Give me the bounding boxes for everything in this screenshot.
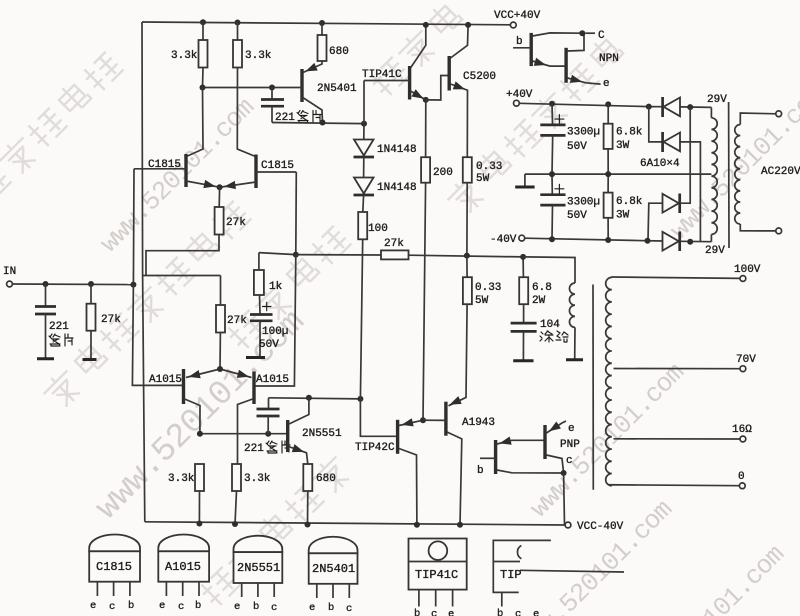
- svg-text:680: 680: [316, 473, 336, 485]
- resistor 27k (lower tail): [220, 276, 222, 306]
- svg-text:221: 221: [244, 443, 264, 455]
- svg-text:16Ω: 16Ω: [732, 424, 752, 436]
- svg-text:c: c: [346, 603, 352, 615]
- svg-text:b: b: [253, 601, 259, 613]
- svg-text:e: e: [448, 609, 454, 616]
- ground (output primary): [566, 358, 583, 361]
- svg-text:www.520101.com: www.520101.com: [664, 80, 800, 246]
- ground (input 27k): [83, 358, 97, 361]
- junction (680 on rail): [305, 522, 311, 528]
- package outline A1015: [158, 535, 209, 552]
- svg-text:b: b: [497, 608, 503, 616]
- wire: bottom rail VCC-40V: [145, 522, 565, 525]
- wire: bias chain down to 2N5551 collector node: [360, 239, 362, 399]
- wire: 27k feedback to output node: [409, 255, 524, 257]
- junction (inset PNP collector c): [561, 470, 567, 476]
- svg-text:TIP41C: TIP41C: [415, 568, 458, 582]
- junction (2N5401 collector): [320, 120, 326, 126]
- junction (TIP41C base / diode chain top): [361, 121, 367, 127]
- svg-text:104: 104: [540, 319, 560, 331]
- resistor 100 (bias chain): [362, 195, 365, 212]
- inset PNP darlington: driver transistor: [494, 440, 497, 474]
- svg-text:2N5551: 2N5551: [237, 561, 280, 575]
- resistor 6.8k 3W (lower bleeder): [607, 174, 609, 193]
- wire: C1815-R base down to feedback node: [295, 172, 298, 255]
- junction (3300u-2 bottom): [549, 236, 555, 242]
- package TIP41C legs: [419, 590, 453, 607]
- transistor C5200 (upper output): [448, 56, 451, 91]
- resistor 27k (upper tail): [218, 187, 220, 207]
- svg-text:e: e: [90, 600, 96, 612]
- diode 6A10 D3: [648, 203, 663, 241]
- junction (221 cap bottom): [265, 431, 271, 437]
- svg-text:c: c: [178, 601, 184, 613]
- junction (3.3k-L on top rail): [200, 19, 206, 25]
- terminal 16ohm: [740, 436, 746, 442]
- wire: psu center tap rail: [525, 173, 712, 175]
- wire: C1815-L base down to input node: [132, 169, 135, 285]
- watermark band kanji top-left: [0, 48, 126, 231]
- svg-text:+40V: +40V: [506, 89, 533, 101]
- output transformer secondary winding: [611, 276, 613, 277]
- wire: 200 down to TIP42C emitter node: [423, 183, 426, 421]
- wire: 2N5401 base node: [203, 87, 273, 89]
- svg-text:TIP42C: TIP42C: [355, 442, 395, 454]
- svg-text:100V: 100V: [734, 264, 761, 276]
- svg-text:c: c: [431, 609, 437, 616]
- svg-text:27k: 27k: [384, 238, 404, 250]
- capacitor 221 ceramic (2N5401 base-emitter): [271, 88, 273, 99]
- wire: TIP41C base vertical: [363, 81, 365, 124]
- svg-text:C1815: C1815: [96, 560, 132, 574]
- svg-text:3300µ: 3300µ: [567, 197, 600, 209]
- svg-text:1N4148: 1N4148: [377, 144, 417, 156]
- ground (psu center tap): [524, 174, 526, 186]
- transistor 2N5401: [300, 69, 303, 102]
- junction (D1/D2 anode-cathode node): [646, 104, 652, 110]
- svg-text:A1943: A1943: [462, 417, 495, 429]
- junction (2N5551 collector): [306, 395, 312, 401]
- svg-text:6.8k: 6.8k: [616, 127, 643, 139]
- svg-text:c: c: [271, 602, 277, 614]
- watermark band kanji bottom-left: [38, 197, 254, 413]
- wire: feedback node to 27k resistor: [296, 254, 381, 256]
- svg-text:680: 680: [329, 46, 349, 58]
- junction (inset NPN collector C): [579, 30, 585, 36]
- ground (zobel): [513, 359, 533, 362]
- transistor A1015 (diff pair left): [182, 369, 185, 404]
- terminal AC220V top: [776, 111, 782, 117]
- junction (bias chain bottom / TIP42C base feed): [357, 396, 363, 402]
- wire: A1015-L collector to 2N5551 base: [200, 433, 288, 435]
- junction (top rail C5200 collector): [465, 22, 471, 28]
- svg-text:www.520101.com: www.520101.com: [94, 93, 260, 259]
- psu transformer primary winding: [740, 113, 776, 125]
- ground (input cap): [37, 357, 54, 360]
- resistor 6.8 2W (zobel): [522, 257, 524, 277]
- ground (100u cap): [246, 356, 265, 359]
- svg-text:29V: 29V: [705, 245, 725, 257]
- inset NPN darlington: output transistor: [564, 48, 567, 83]
- terminal VCC-40V: [565, 522, 571, 528]
- wire: inset PNP collector to rail: [563, 473, 566, 525]
- junction (3.3k-R on top rail): [235, 20, 241, 26]
- capacitor 104 polyester (zobel): [523, 304, 525, 322]
- svg-text:VCC-40V: VCC-40V: [577, 521, 624, 533]
- svg-text:2N5401: 2N5401: [312, 562, 355, 576]
- resistor 3.3k (A1015-R load): [232, 464, 241, 491]
- diode 6A10 D1: [661, 97, 664, 117]
- capacitor 100u 50V electrolytic: [259, 295, 262, 314]
- wire: tap 100V: [612, 277, 741, 278]
- svg-text:1N4148: 1N4148: [377, 182, 417, 194]
- wire: tap 70V: [614, 368, 741, 370]
- junction (input 27k): [88, 281, 94, 287]
- junction (caps midpoint): [549, 171, 555, 177]
- svg-text:70V: 70V: [736, 354, 756, 366]
- wire: 0.33 lower to A1943 emitter: [449, 304, 468, 406]
- junction (input to bases): [130, 282, 136, 288]
- svg-text:TIP: TIP: [500, 568, 522, 582]
- svg-text:e: e: [159, 600, 165, 612]
- terminal +40V: [514, 100, 520, 106]
- watermark band kanji bottom-center: [195, 451, 355, 611]
- resistor 680 (2N5401 load): [321, 23, 323, 36]
- junction (3.3k-R on rail): [232, 521, 238, 527]
- svg-text:C1815: C1815: [148, 159, 181, 171]
- svg-text:AC220V: AC220V: [761, 166, 800, 178]
- svg-text:200: 200: [433, 167, 453, 179]
- junction (3.3k / C1815-L collector / 2N5401 base): [200, 85, 206, 91]
- wire: left rail to lower tail 27k: [143, 275, 221, 277]
- junction (3.3k-L on rail): [196, 521, 202, 527]
- svg-text:3.3k: 3.3k: [168, 473, 195, 485]
- svg-text:27k: 27k: [226, 217, 246, 229]
- diode 6A10 D4: [663, 232, 679, 251]
- svg-text:NPN: NPN: [599, 53, 619, 65]
- package outline TIP41C: [409, 539, 467, 590]
- resistor 6.8k 3W (upper bleeder): [607, 104, 609, 123]
- diode 1N4148 (bias, lower): [363, 157, 365, 178]
- capacitor 3300u 50V (upper): [551, 104, 554, 124]
- svg-text:3.3k: 3.3k: [244, 473, 271, 485]
- wire: psu +40V rail: [519, 103, 662, 106]
- junction (TIP42C emitter / A1943 base): [420, 417, 426, 423]
- capacitor 221 ceramic (input): [45, 284, 47, 306]
- output inductor (transformer primary): [569, 283, 575, 327]
- junction (6.8k-1 top): [605, 101, 611, 107]
- svg-text:b: b: [328, 602, 334, 614]
- svg-text:100: 100: [368, 223, 388, 235]
- diode 1N4148 (bias, upper): [363, 124, 365, 140]
- svg-text:c: c: [566, 455, 573, 467]
- svg-text:6.8k: 6.8k: [616, 196, 643, 208]
- svg-text:2N5401: 2N5401: [317, 83, 357, 95]
- terminal AC220V bottom: [776, 228, 782, 234]
- junction (output node at 0.33 upper): [464, 253, 470, 259]
- wire: output line to matching transformer: [523, 257, 575, 283]
- resistor 200 (driver emitters): [425, 100, 427, 157]
- junction (D1 right / winding top): [687, 104, 693, 110]
- svg-text:3.3k: 3.3k: [245, 50, 272, 62]
- wire: TIP41C emitter to C5200 base: [426, 76, 449, 101]
- wire: 2N5551 collector top line: [269, 398, 361, 399]
- svg-text:c: c: [109, 601, 115, 613]
- resistor 3.3k (input stage left): [202, 22, 204, 40]
- terminal IN: [7, 281, 13, 287]
- svg-text:www.520101.com: www.520101.com: [524, 358, 690, 524]
- resistor 27k (feedback, horizontal): [381, 250, 409, 259]
- junction (A1015-L collector / 3.3k): [197, 431, 203, 437]
- svg-text:b: b: [516, 36, 523, 48]
- resistor 0.33 5W (upper output emitter): [463, 157, 472, 183]
- package outline 2N5401: [309, 537, 358, 554]
- wire: psu -40V rail: [525, 238, 662, 241]
- svg-text:b: b: [414, 608, 420, 616]
- junction (D3 anode): [645, 238, 651, 244]
- svg-text:e: e: [309, 602, 315, 614]
- wire: left rail (vertical): [142, 22, 145, 522]
- junction (3300u-1 top): [549, 101, 555, 107]
- svg-text:6A10×4: 6A10×4: [640, 158, 680, 170]
- junction (680 on top rail): [319, 20, 325, 26]
- svg-text:2W: 2W: [532, 295, 546, 307]
- wire: C1815-R base vert down to A1015-R base: [254, 255, 296, 386]
- svg-text:5W: 5W: [476, 173, 490, 185]
- junction (221 cap top on 2N5401 base): [269, 85, 275, 91]
- svg-text:C: C: [598, 30, 605, 42]
- svg-text:221: 221: [49, 321, 69, 333]
- resistor 27k (input): [90, 284, 92, 304]
- package 2N5401 legs: [317, 584, 350, 598]
- wire: tap 0: [611, 485, 740, 486]
- package outline C1815: [89, 535, 140, 552]
- diode 6A10 D2: [649, 107, 662, 142]
- junction (D4 right / winding bottom): [687, 239, 693, 245]
- svg-text:c: c: [515, 609, 521, 616]
- svg-text:3300µ: 3300µ: [567, 127, 600, 139]
- svg-text:PNP: PNP: [560, 439, 580, 451]
- svg-text:b: b: [128, 600, 134, 612]
- svg-text:5W: 5W: [475, 295, 489, 307]
- junction (A1943 collector on rail): [457, 522, 463, 528]
- junction (top rail TIP41C collector): [423, 22, 429, 28]
- junction (TIP42C collector on rail): [414, 522, 420, 528]
- svg-text:6.8: 6.8: [532, 282, 552, 294]
- svg-text:0.33: 0.33: [475, 282, 501, 294]
- svg-text:2N5551: 2N5551: [302, 428, 342, 440]
- transistor A1015 (diff pair right): [252, 372, 255, 405]
- svg-text:e: e: [603, 78, 610, 90]
- capacitor 221 ceramic (2N5551): [268, 398, 270, 408]
- svg-text:29V: 29V: [707, 94, 727, 106]
- inset NPN darlington: driver transistor: [530, 33, 533, 66]
- svg-text:50V: 50V: [567, 141, 587, 153]
- terminal VCC+40V: [510, 22, 516, 28]
- svg-text:3.3k: 3.3k: [171, 50, 198, 62]
- svg-text:www.520101.com: www.520101.com: [624, 540, 790, 616]
- wire: upper tail to left rail: [146, 235, 219, 276]
- svg-text:0: 0: [738, 471, 745, 483]
- resistor 1k (feedback shunt): [258, 253, 260, 270]
- watermark band kanji mid (A1015 area): [222, 222, 354, 354]
- resistor 3.3k (input stage right): [237, 22, 239, 40]
- package outline 2N5551: [234, 536, 283, 552]
- package outline TIP42C (cut off): [493, 540, 551, 592]
- svg-text:0.33: 0.33: [476, 161, 502, 173]
- junction (input cap): [43, 281, 49, 287]
- wire: feedback node line: [259, 253, 296, 255]
- psu transformer secondary winding 29V+29V: [710, 107, 712, 117]
- svg-text:A1015: A1015: [256, 374, 289, 386]
- resistor 3.3k (A1015-L load): [195, 464, 204, 491]
- svg-text:e: e: [533, 609, 539, 616]
- stray scan line (bottom right): [520, 570, 624, 572]
- package 2N5551 legs: [242, 583, 275, 597]
- svg-text:C5200: C5200: [463, 71, 496, 83]
- svg-text:C1815: C1815: [261, 160, 294, 172]
- watermark band kanji top-right: [442, 34, 627, 219]
- capacitor 3300u 50V (lower): [551, 174, 553, 194]
- psu transformer core: [728, 102, 730, 248]
- svg-text:3W: 3W: [616, 210, 630, 222]
- watermark band kanji top-center faint: [365, 0, 466, 101]
- svg-text:50V: 50V: [567, 210, 587, 222]
- svg-text:A1015: A1015: [165, 560, 201, 574]
- junction (bleeders midpoint): [605, 171, 611, 177]
- svg-text:e: e: [234, 601, 240, 613]
- terminal 100V: [740, 276, 746, 282]
- wire: 3.3k to C1815 right collector: [237, 68, 255, 157]
- svg-text:IN: IN: [3, 266, 16, 278]
- resistor 0.33 5W (lower output emitter): [466, 256, 468, 278]
- package TIP42C leg: [501, 592, 503, 606]
- svg-text:100µ: 100µ: [262, 326, 288, 338]
- svg-text:A1015: A1015: [149, 374, 182, 386]
- junction (TIP41C emitter node): [423, 97, 429, 103]
- output transformer core: [592, 285, 594, 490]
- svg-text:b: b: [195, 600, 201, 612]
- junction (feedback node): [293, 252, 299, 258]
- svg-text:1k: 1k: [269, 281, 283, 293]
- svg-text:b: b: [477, 465, 484, 477]
- terminal 0: [739, 483, 745, 489]
- svg-text:TIP41C: TIP41C: [362, 69, 402, 81]
- package C1815 legs: [97, 582, 129, 596]
- svg-text:3W: 3W: [616, 140, 630, 152]
- junction (zobel top): [520, 254, 526, 260]
- transistor A1943 (lower output): [444, 402, 447, 436]
- svg-text:-40V: -40V: [490, 234, 517, 246]
- junction (A1015 common emitters): [217, 366, 223, 372]
- svg-text:e: e: [568, 423, 575, 435]
- svg-text:50V: 50V: [259, 339, 279, 351]
- transistor C1815 (diff pair left): [184, 154, 187, 187]
- wire: VCC+40V top rail: [142, 22, 511, 25]
- transistor TIP42C (lower driver): [360, 399, 396, 436]
- svg-text:27k: 27k: [101, 314, 121, 326]
- wire: input line: [12, 283, 133, 286]
- junction (6.8k-2 bottom): [605, 237, 611, 243]
- package A1015 legs: [166, 582, 199, 596]
- wire: 2N5401 collector to TIP41C base node: [272, 123, 364, 124]
- wire: inset C lead: [585, 32, 595, 34]
- resistor 680 (2N5551 emitter): [303, 464, 312, 491]
- transistor 2N5551 (VAS): [286, 420, 289, 452]
- wire: C1815 left collector: [188, 88, 204, 157]
- transistor C1815 (diff pair right): [254, 155, 257, 189]
- junction (C1815 common emitters): [217, 184, 223, 190]
- terminal -40V: [519, 235, 525, 241]
- svg-text:VCC+40V: VCC+40V: [494, 10, 541, 22]
- svg-text:27k: 27k: [227, 315, 247, 327]
- inset PNP darlington: output transistor: [543, 425, 546, 459]
- terminal 70V: [740, 366, 746, 372]
- wire: tap 16ohm: [614, 438, 741, 440]
- wire: input node down to A1015-L base: [132, 285, 183, 386]
